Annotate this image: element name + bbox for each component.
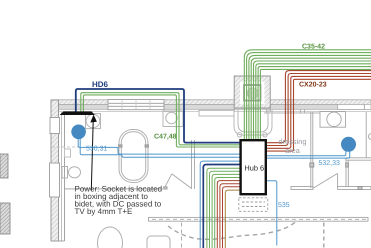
svg-text:CX20-23: CX20-23 bbox=[299, 81, 327, 88]
svg-text:532,33: 532,33 bbox=[319, 160, 341, 167]
svg-text:Hub 6: Hub 6 bbox=[244, 163, 264, 172]
svg-text:C47,48: C47,48 bbox=[154, 133, 177, 140]
svg-text:535: 535 bbox=[278, 202, 290, 209]
svg-text:C35-42: C35-42 bbox=[302, 44, 325, 51]
svg-text:HD6: HD6 bbox=[92, 80, 109, 89]
svg-text:area: area bbox=[285, 146, 301, 155]
svg-text:TV by 4mm T+E: TV by 4mm T+E bbox=[75, 207, 133, 216]
svg-text:530,31: 530,31 bbox=[86, 146, 108, 153]
